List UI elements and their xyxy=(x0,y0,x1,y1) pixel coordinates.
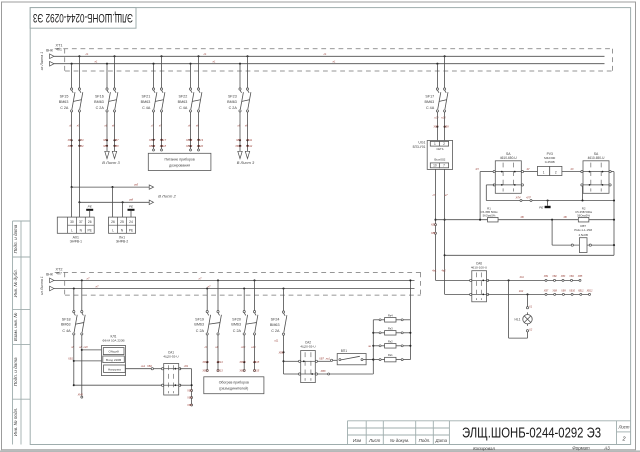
svg-text:ХВ8: ХВ8 xyxy=(320,369,326,373)
svg-text:ХВ1: ХВ1 xyxy=(543,275,549,278)
svg-text:ХВ7: ХВ7 xyxy=(432,125,438,129)
svg-text:4В: 4В xyxy=(520,215,523,219)
svg-text:ХВ13: ХВ13 xyxy=(201,360,209,364)
svg-text:л11: л11 xyxy=(273,339,279,343)
svg-text:ХВ2: ХВ2 xyxy=(430,231,436,235)
svg-text:Подп.: Подп. xyxy=(419,438,431,443)
svg-text:л10: л10 xyxy=(240,345,246,349)
svg-text:Ф6-М 10А 220В: Ф6-М 10А 220В xyxy=(102,339,124,343)
svg-text:ХВ4: ХВ4 xyxy=(78,144,84,148)
svg-text:Rк2: Rк2 xyxy=(388,339,393,343)
svg-text:L: L xyxy=(112,229,114,233)
svg-text:СЕТЬ: СЕТЬ xyxy=(436,147,443,151)
svg-text:ВМ63: ВМ63 xyxy=(61,323,71,327)
svg-text:Rк4: Rк4 xyxy=(388,313,393,317)
svg-text:ив5: ив5 xyxy=(134,183,139,187)
svg-text:БП3-У01: БП3-У01 xyxy=(413,145,426,149)
svg-text:из Листа 1: из Листа 1 xyxy=(40,276,44,294)
svg-text:4Ц20-55-U: 4Ц20-55-U xyxy=(300,345,315,349)
svg-text:SF17: SF17 xyxy=(425,95,434,99)
svg-text:л10: л10 xyxy=(433,116,439,120)
svg-text:ХВ20: ХВ20 xyxy=(196,144,204,148)
svg-text:ХВ6: ХВ6 xyxy=(102,144,108,148)
svg-text:7: 7 xyxy=(443,164,445,168)
svg-text:(разъединителей): (разъединителей) xyxy=(219,386,248,390)
svg-text:ХВ17: ХВ17 xyxy=(148,138,156,142)
svg-text:ХВ15: ХВ15 xyxy=(252,360,260,364)
svg-text:4610-650-U: 4610-650-U xyxy=(588,156,606,160)
svg-text:ХВ2: ХВ2 xyxy=(67,144,73,148)
svg-text:ХВ18: ХВ18 xyxy=(159,144,167,148)
svg-text:25: 25 xyxy=(120,220,124,224)
svg-text:С 2А: С 2А xyxy=(233,329,242,333)
svg-text:4в1: 4в1 xyxy=(432,269,437,273)
svg-text:ХВ6: ХВ6 xyxy=(277,350,283,354)
svg-text:0-250В: 0-250В xyxy=(545,160,555,164)
svg-text:Rк1: Rк1 xyxy=(388,353,393,357)
svg-text:4610-100-U: 4610-100-U xyxy=(471,265,487,269)
svg-text:ХВ11: ХВ11 xyxy=(245,138,253,142)
svg-text:С 4А: С 4А xyxy=(179,106,188,110)
svg-text:Х2: Х2 xyxy=(528,327,533,331)
svg-text:ХВ1: ХВ1 xyxy=(67,357,73,361)
svg-text:ХВ5: ХВ5 xyxy=(577,275,583,278)
svg-text:4в2: 4в2 xyxy=(441,269,446,273)
svg-text:лн1: лн1 xyxy=(140,364,146,368)
svg-text:Вход 220В: Вход 220В xyxy=(106,358,121,362)
svg-text:лв: лв xyxy=(367,345,371,348)
svg-text:ХВ12: ХВ12 xyxy=(586,290,594,293)
svg-text:ЭЛЩ.ШОНБ-0244-0292 Э3: ЭЛЩ.ШОНБ-0244-0292 Э3 xyxy=(462,425,601,441)
svg-text:Обогрев приборов: Обогрев приборов xyxy=(219,380,249,384)
svg-text:С 4А: С 4А xyxy=(62,329,71,333)
svg-text:ХВ10: ХВ10 xyxy=(568,290,576,293)
svg-text:из Листа 1: из Листа 1 xyxy=(40,52,44,70)
svg-text:ХВ5: ХВ5 xyxy=(186,403,192,407)
svg-text:ВМ63: ВМ63 xyxy=(227,100,237,104)
svg-text:SF19: SF19 xyxy=(195,317,204,321)
svg-text:С 2А: С 2А xyxy=(60,106,69,110)
svg-text:ХВ7: ХВ7 xyxy=(543,290,549,293)
svg-text:24: 24 xyxy=(129,220,133,224)
svg-text:ХВ2: ХВ2 xyxy=(551,275,557,278)
svg-text:ХВ19: ХВ19 xyxy=(196,138,204,142)
svg-text:н10: н10 xyxy=(441,116,446,120)
svg-text:ХВ7: ХВ7 xyxy=(318,356,324,360)
svg-text:ЭНФВ-1: ЭНФВ-1 xyxy=(70,240,83,244)
svg-text:26: 26 xyxy=(111,220,115,224)
svg-text:н10: н10 xyxy=(251,345,256,349)
svg-text:РНН-1-1-15М: РНН-1-1-15М xyxy=(574,228,592,232)
svg-text:4У: 4У xyxy=(526,167,529,171)
svg-text:В Лист 2: В Лист 2 xyxy=(158,193,176,198)
svg-text:л7: л7 xyxy=(198,276,202,280)
svg-text:ВМ63: ВМ63 xyxy=(194,323,204,327)
svg-text:Изм: Изм xyxy=(353,438,361,443)
svg-text:лб1: лб1 xyxy=(183,364,189,368)
svg-text:56Ом±5%: 56Ом±5% xyxy=(483,213,496,217)
svg-text:ХВ13: ХВ13 xyxy=(215,360,223,364)
svg-text:ВМ63: ВМ63 xyxy=(141,100,151,104)
svg-text:Х1: Х1 xyxy=(528,304,533,308)
svg-text:ХВ3: ХВ3 xyxy=(186,389,192,393)
svg-text:ХВ19: ХВ19 xyxy=(185,138,193,142)
svg-text:Питание приборов: Питание приборов xyxy=(164,157,194,161)
svg-text:ХВ10: ХВ10 xyxy=(234,144,242,148)
svg-text:26: 26 xyxy=(88,220,92,224)
svg-text:ВМ63: ВМ63 xyxy=(178,100,188,104)
svg-text:ХВ8: ХВ8 xyxy=(113,144,119,148)
svg-text:ВМ63: ВМ63 xyxy=(94,100,104,104)
svg-text:ХВ11: ХВ11 xyxy=(577,290,584,293)
svg-text:Подп. и дата: Подп. и дата xyxy=(13,357,18,386)
svg-text:4д1: 4д1 xyxy=(520,275,525,279)
svg-text:ВНК: ВНК xyxy=(46,272,53,276)
svg-text:Подп. и дата: Подп. и дата xyxy=(13,224,18,253)
svg-text:SF21: SF21 xyxy=(141,95,150,99)
svg-text:ХВ15: ХВ15 xyxy=(238,360,246,364)
svg-text:С 2А: С 2А xyxy=(229,106,238,110)
svg-text:С 2А: С 2А xyxy=(271,329,280,333)
svg-text:SF22: SF22 xyxy=(178,95,187,99)
svg-text:ХВ2: ХВ2 xyxy=(146,364,152,368)
svg-text:Копировал: Копировал xyxy=(473,446,495,451)
svg-text:2: 2 xyxy=(555,171,557,175)
svg-text:ХВ15: ХВ15 xyxy=(252,369,260,373)
svg-text:SF23: SF23 xyxy=(228,95,237,99)
svg-text:л7: л7 xyxy=(431,193,435,197)
svg-text:4В: 4В xyxy=(563,215,566,219)
svg-text:SF24: SF24 xyxy=(271,318,280,322)
svg-text:ХВ15: ХВ15 xyxy=(238,369,246,373)
svg-text:Инв. № подл.: Инв. № подл. xyxy=(13,408,18,437)
svg-text:Нагрузка: Нагрузка xyxy=(108,367,121,371)
svg-text:ХВ1: ХВ1 xyxy=(430,223,436,227)
svg-text:4д2: 4д2 xyxy=(519,289,524,293)
svg-text:Инв. № дубл.: Инв. № дубл. xyxy=(13,269,18,297)
svg-text:HL1: HL1 xyxy=(514,318,520,322)
svg-text:56Ом±5%: 56Ом±5% xyxy=(577,213,590,217)
svg-text:ЭНФВ-2: ЭНФВ-2 xyxy=(116,240,129,244)
svg-text:ВМ63: ВМ63 xyxy=(59,100,69,104)
svg-text:ХВ9: ХВ9 xyxy=(235,138,241,142)
svg-text:ВМ63: ВМ63 xyxy=(231,323,241,327)
svg-text:ХВ9: ХВ9 xyxy=(560,290,566,293)
svg-text:L: L xyxy=(71,229,73,233)
svg-text:С 2А: С 2А xyxy=(96,106,105,110)
svg-text:л7: л7 xyxy=(86,276,90,280)
svg-text:ХВ4: ХВ4 xyxy=(568,275,574,278)
svg-text:Общий: Общий xyxy=(109,350,119,354)
svg-text:ХЛ4: ХЛ4 xyxy=(515,196,522,200)
svg-text:Rк3: Rк3 xyxy=(388,326,393,330)
svg-text:SF18: SF18 xyxy=(62,317,71,321)
svg-text:10: 10 xyxy=(433,164,437,168)
svg-text:4Л: 4Л xyxy=(475,167,478,171)
svg-text:дозирования: дозирования xyxy=(169,163,190,167)
svg-text:ив8: ив8 xyxy=(129,198,134,202)
svg-text:4Л7: 4Л7 xyxy=(526,196,531,200)
svg-text:ХВ12: ХВ12 xyxy=(245,144,253,148)
svg-text:1: 1 xyxy=(434,142,436,146)
svg-text:SF20: SF20 xyxy=(232,317,241,321)
svg-text:ХВ7: ХВ7 xyxy=(113,138,119,142)
svg-text:SF15: SF15 xyxy=(60,95,69,99)
svg-text:ХВ20: ХВ20 xyxy=(185,144,193,148)
svg-text:4Х: 4Х xyxy=(570,167,573,171)
svg-text:л1: л1 xyxy=(203,52,207,56)
svg-text:А3: А3 xyxy=(603,446,610,451)
svg-text:SF16: SF16 xyxy=(95,95,104,99)
svg-text:ХВ17: ХВ17 xyxy=(159,138,167,142)
svg-text:Взам. инв. №: Взам. инв. № xyxy=(13,313,18,341)
svg-text:ВП1: ВП1 xyxy=(341,349,347,353)
svg-text:Вых002: Вых002 xyxy=(434,157,445,161)
svg-text:ХВ18: ХВ18 xyxy=(148,144,156,148)
svg-text:ЭЛЩ.ШОНБ-0244-0292 Э3: ЭЛЩ.ШОНБ-0244-0292 Э3 xyxy=(33,11,133,25)
svg-text:л1: л1 xyxy=(85,52,89,56)
svg-text:4610-650-U: 4610-650-U xyxy=(500,156,518,160)
svg-text:В Лист 3: В Лист 3 xyxy=(237,160,255,165)
svg-text:В Лист 3: В Лист 3 xyxy=(102,160,120,165)
svg-text:1: 1 xyxy=(543,171,545,175)
svg-text:Лист: Лист xyxy=(617,424,629,429)
svg-text:30: 30 xyxy=(70,220,74,224)
svg-text:Формат: Формат xyxy=(572,446,590,451)
svg-text:Дата: Дата xyxy=(435,438,448,443)
svg-text:ХВ3: ХВ3 xyxy=(560,275,566,278)
svg-text:ХВ8: ХВ8 xyxy=(443,125,449,129)
svg-text:№ докум.: № докум. xyxy=(390,438,409,443)
svg-text:лк8: лк8 xyxy=(82,345,88,349)
svg-text:4,5кОВ: 4,5кОВ xyxy=(578,233,588,237)
svg-text:С 2А: С 2А xyxy=(196,329,205,333)
svg-text:ХН8: ХН8 xyxy=(77,392,84,396)
svg-text:2: 2 xyxy=(621,436,625,442)
svg-text:ХВ4: ХВ4 xyxy=(186,396,192,400)
svg-text:37: 37 xyxy=(79,220,83,224)
svg-text:4б7: 4б7 xyxy=(56,272,62,276)
svg-text:ХВ5: ХВ5 xyxy=(102,138,108,142)
svg-text:ВМ63: ВМ63 xyxy=(425,100,435,104)
svg-text:ХВ13: ХВ13 xyxy=(201,369,209,373)
svg-text:ХВ1: ХВ1 xyxy=(67,138,73,142)
svg-text:ВМ63: ВМ63 xyxy=(270,323,280,327)
svg-text:2: 2 xyxy=(443,142,445,146)
svg-text:лв1: лв1 xyxy=(325,356,331,360)
svg-text:ХВ3: ХВ3 xyxy=(78,138,84,142)
svg-text:ВНК: ВНК xyxy=(46,48,53,52)
svg-text:ХВ13: ХВ13 xyxy=(215,369,223,373)
svg-text:С 4А: С 4А xyxy=(142,106,151,110)
svg-text:С 4А: С 4А xyxy=(426,106,435,110)
svg-text:Лист: Лист xyxy=(368,438,381,443)
svg-text:4Ц20-55-U: 4Ц20-55-U xyxy=(163,355,178,359)
svg-text:ХВ8: ХВ8 xyxy=(551,290,557,293)
svg-text:л1: л1 xyxy=(323,52,327,56)
svg-text:4б1: 4б1 xyxy=(56,47,62,51)
